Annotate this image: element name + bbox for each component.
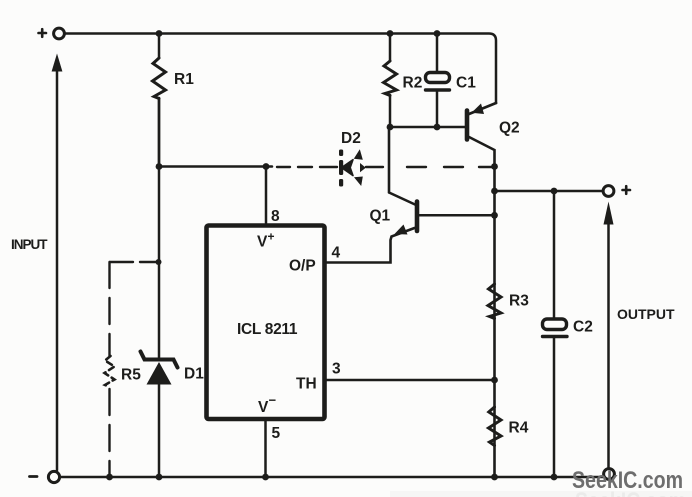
- svg-text:8: 8: [271, 208, 280, 225]
- node B (R2 top): [387, 30, 394, 37]
- svg-text:OUTPUT: OUTPUT: [617, 306, 675, 322]
- svg-text:V: V: [257, 234, 268, 251]
- node P: [262, 474, 269, 481]
- svg-text:Q1: Q1: [370, 208, 391, 225]
- node K (C2 top): [551, 188, 558, 195]
- svg-text:R4: R4: [509, 420, 529, 437]
- wire output top y191: [495, 190, 603, 193]
- node M (R5 tap): [156, 259, 162, 265]
- svg-text:D1: D1: [184, 366, 204, 383]
- node O: [156, 474, 163, 481]
- node H: [434, 124, 441, 131]
- arrow INPUT: [56, 70, 59, 470]
- transistor Q1: [415, 202, 420, 232]
- capacitor C1: [436, 34, 439, 73]
- wire dashed D2 to collector line: [366, 166, 492, 168]
- terminal - output (bottom right): [604, 469, 615, 480]
- node G: [387, 124, 394, 131]
- svg-text:3: 3: [332, 361, 341, 378]
- svg-text:R5: R5: [121, 367, 141, 384]
- node J: [491, 188, 498, 195]
- wire pin 5: [264, 421, 267, 477]
- wire y166 left: [159, 165, 272, 168]
- polarity + output: [623, 186, 631, 194]
- node A (R1 top): [156, 30, 163, 37]
- transistor Q2: [465, 111, 470, 140]
- svg-text:C2: C2: [573, 319, 593, 336]
- svg-text:−: −: [269, 393, 277, 408]
- node D (pin8 junction): [263, 163, 270, 170]
- node R: [551, 474, 558, 481]
- svg-text:4: 4: [332, 245, 341, 262]
- node C (C1 top): [434, 30, 441, 37]
- ic U1 ICL8211 box: [207, 226, 325, 420]
- svg-text:D2: D2: [341, 130, 361, 147]
- wire dashed to D2: [277, 166, 337, 168]
- resistor R1: [158, 34, 161, 167]
- diode D2 (LED): [339, 149, 366, 186]
- svg-text:ICL 8211: ICL 8211: [237, 321, 298, 338]
- svg-text:V: V: [258, 399, 269, 416]
- terminal - input (bottom left): [48, 471, 59, 482]
- svg-text:R3: R3: [509, 293, 529, 310]
- svg-text:TH: TH: [296, 376, 317, 393]
- resistor R3: [488, 284, 501, 319]
- wire dashed R5 top: [110, 261, 156, 263]
- wire TH pin3: [326, 379, 495, 382]
- arrow OUTPUT: [607, 210, 610, 468]
- node E (R1 bottom junction): [156, 163, 163, 170]
- terminal + output: [603, 186, 614, 197]
- svg-text:5: 5: [272, 425, 281, 442]
- svg-text:C1: C1: [456, 75, 476, 92]
- node N: [106, 474, 113, 481]
- resistor R5 (dashed branch): [108, 262, 110, 356]
- terminal + input (top left): [54, 28, 65, 39]
- svg-text:R2: R2: [403, 75, 423, 92]
- node Q: [491, 474, 498, 481]
- wire base line y127: [390, 126, 465, 129]
- svg-text:O/P: O/P: [289, 258, 316, 275]
- node L (R3/R4 junction): [491, 377, 498, 384]
- resistor R4: [489, 407, 502, 446]
- wire pin 8: [265, 167, 268, 224]
- wire top rail: [65, 34, 496, 104]
- polarity + top left: [39, 29, 47, 37]
- svg-text:+: +: [268, 230, 275, 244]
- svg-text:INPUT: INPUT: [11, 237, 48, 252]
- node F (dash to collector line): [491, 163, 498, 170]
- svg-text:Q2: Q2: [499, 120, 520, 137]
- capacitor C2: [553, 191, 556, 319]
- zener diode D1: [158, 99, 161, 361]
- svg-text:R1: R1: [174, 71, 194, 88]
- wire Q1 base to right line: [420, 214, 495, 217]
- node I (base junction): [491, 212, 498, 219]
- resistor R2: [389, 34, 392, 128]
- wire bottom rail: [61, 476, 604, 479]
- polarity - bottom left: [30, 475, 38, 478]
